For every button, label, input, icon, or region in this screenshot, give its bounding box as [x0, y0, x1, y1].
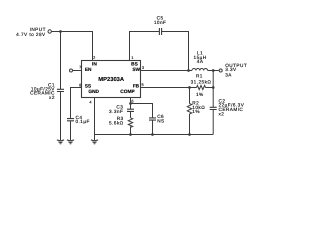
- wire C5 to SW node: [162, 32, 189, 71]
- capacitor C3: [127, 109, 134, 111]
- L1 value label: [194, 51, 207, 64]
- C4 value label: [76, 115, 90, 124]
- R3 value label: [109, 116, 124, 125]
- svg-text:2: 2: [93, 55, 95, 60]
- wire L1 to output: [208, 70, 219, 72]
- ground (C1): [57, 140, 64, 141]
- wire C1 top lead: [60, 32, 62, 90]
- wire input to IN pin: [51, 32, 92, 61]
- capacitor C5: [159, 28, 161, 35]
- node COMP/C6 branch junction: [129, 102, 132, 105]
- svg-text:5.6kΩ: 5.6kΩ: [109, 120, 124, 125]
- capacitor C1: [57, 89, 64, 91]
- svg-text:NS: NS: [157, 118, 164, 123]
- wire output vertical to C2: [212, 71, 214, 108]
- svg-text:R1: R1: [196, 73, 203, 78]
- output terminal: [219, 69, 222, 72]
- capacitor C6: [149, 118, 156, 120]
- svg-text:1%: 1%: [196, 92, 204, 97]
- input terminal: [48, 30, 51, 33]
- svg-text:3.3nF: 3.3nF: [109, 109, 123, 114]
- svg-text:GND: GND: [88, 89, 99, 95]
- ground (C4): [67, 140, 74, 141]
- svg-text:SS: SS: [85, 84, 92, 90]
- svg-text:7: 7: [79, 64, 81, 69]
- C1 value label: [30, 82, 55, 99]
- node FB/R2 junction: [188, 86, 191, 89]
- svg-text:8: 8: [79, 83, 81, 88]
- svg-text:BS: BS: [131, 62, 138, 68]
- C6 value label: [157, 114, 164, 124]
- svg-text:1%: 1%: [192, 109, 200, 114]
- node output junction: [212, 69, 215, 72]
- wire R2 bottom lead: [189, 114, 191, 135]
- C5 value label: [154, 16, 166, 26]
- svg-text:3: 3: [142, 65, 144, 70]
- svg-text:3A: 3A: [225, 73, 232, 78]
- svg-text:x2: x2: [49, 95, 55, 100]
- inductor L1: [192, 69, 208, 71]
- wire FB line: [141, 87, 197, 89]
- C3 value label: [109, 104, 123, 114]
- capacitor C4: [67, 119, 74, 121]
- svg-text:SW: SW: [132, 67, 140, 73]
- svg-text:1: 1: [131, 55, 133, 60]
- svg-text:FB: FB: [133, 84, 140, 90]
- svg-text:MP2303A: MP2303A: [98, 76, 125, 83]
- wire R3 bottom lead: [130, 126, 132, 134]
- node C6/ground rail junction: [151, 133, 154, 136]
- ground (GND pin): [91, 140, 98, 141]
- svg-text:10nF: 10nF: [154, 20, 166, 25]
- svg-text:6: 6: [131, 99, 133, 104]
- svg-text:4A: 4A: [197, 59, 204, 64]
- wire R2 top lead: [189, 88, 191, 104]
- wire C2 bottom lead: [212, 110, 214, 135]
- node R2/ground rail junction: [188, 133, 191, 136]
- wire SS to C4: [71, 88, 82, 119]
- svg-text:COMP: COMP: [120, 89, 135, 95]
- wire C4 bottom lead: [70, 121, 72, 140]
- resistor R1: [197, 85, 206, 89]
- R2 value label: [192, 101, 205, 115]
- wire R1 to output vertical: [206, 87, 214, 89]
- svg-text:x2: x2: [219, 112, 225, 117]
- op-amp U1 MP2303A IC body: [82, 61, 141, 98]
- EN terminal: [70, 69, 73, 72]
- wire C3 to R3: [130, 112, 132, 118]
- node input/C1 junction: [59, 30, 62, 33]
- wire C1 bottom lead: [60, 92, 62, 141]
- svg-text:4.7V to 28V: 4.7V to 28V: [16, 32, 46, 37]
- node R3/ground rail junction: [129, 133, 132, 136]
- resistor R3: [128, 118, 132, 128]
- wire EN: [73, 70, 82, 72]
- wire ground rail: [95, 134, 214, 136]
- svg-text:31.25kΩ: 31.25kΩ: [191, 80, 212, 85]
- wire COMP branch to C6: [131, 104, 153, 118]
- R1 value label: [191, 73, 212, 97]
- svg-text:5: 5: [142, 82, 144, 87]
- svg-text:IN: IN: [92, 62, 97, 68]
- wire COMP to C3: [130, 98, 132, 109]
- capacitor C2: [210, 107, 217, 109]
- svg-text:EN: EN: [85, 67, 92, 73]
- svg-text:0.1µF: 0.1µF: [76, 119, 90, 124]
- svg-text:3.3V: 3.3V: [225, 67, 237, 72]
- wire BS up: [130, 32, 160, 61]
- output label: [225, 63, 247, 78]
- resistor R2: [187, 104, 191, 115]
- node SW/C5 junction: [187, 69, 190, 72]
- wire SW line: [141, 70, 193, 72]
- wire GND pin down: [94, 98, 96, 141]
- C2 value label: [219, 98, 245, 116]
- wire C6 bottom lead: [152, 120, 154, 134]
- node R1/C2 junction: [212, 86, 215, 89]
